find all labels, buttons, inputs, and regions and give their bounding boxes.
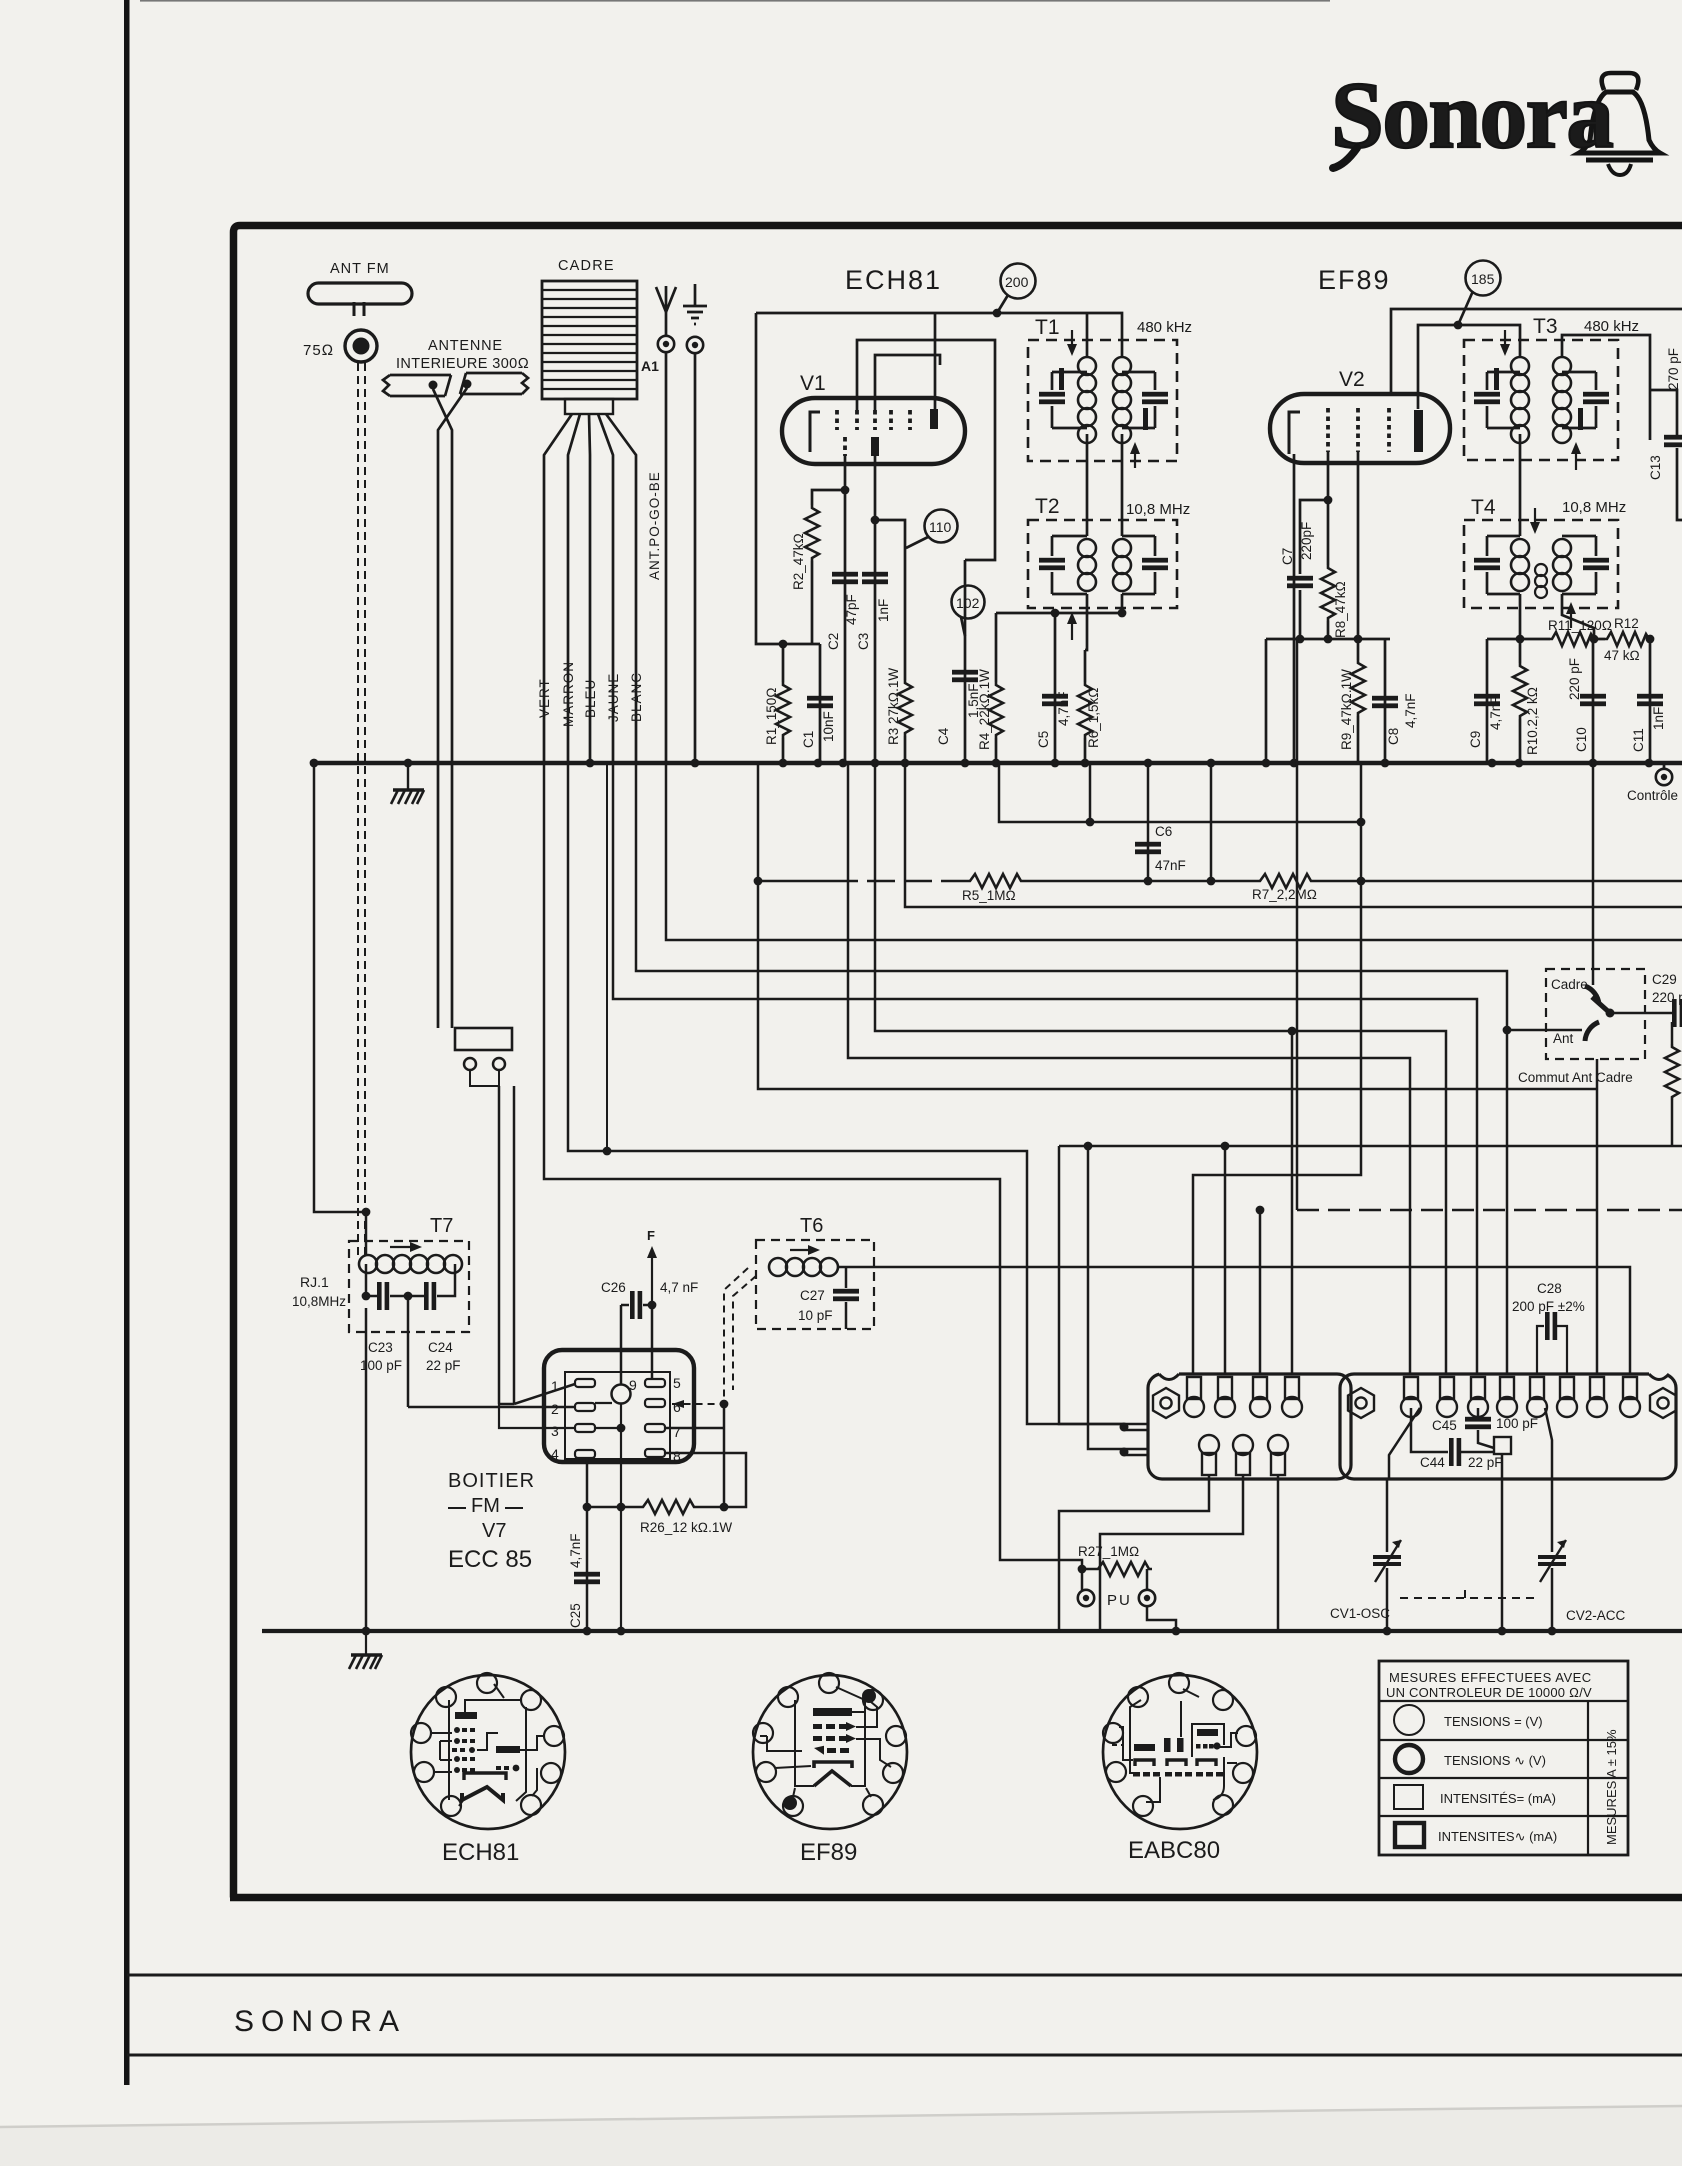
T3 tuning arrow secondary: [1575, 446, 1577, 470]
ground stub & symbol: [365, 1631, 367, 1654]
transformer T6 box: [756, 1240, 874, 1329]
resistor R12 47k: [1605, 632, 1649, 646]
svg-text:T7: T7: [430, 1215, 453, 1237]
svg-text:1nF: 1nF: [876, 599, 891, 622]
svg-text:VERT: VERT: [537, 678, 552, 718]
heater ECH81: [464, 1773, 506, 1780]
svg-text:4,7nF: 4,7nF: [568, 1533, 583, 1568]
svg-text:Sonora: Sonora: [1331, 62, 1613, 168]
socket centre pin 9: [612, 1385, 631, 1404]
svg-text:R7_2,2MΩ: R7_2,2MΩ: [1252, 887, 1317, 902]
transformer T7 box: [349, 1241, 469, 1332]
wire JAUNE branch: [613, 763, 1477, 1374]
svg-text:SONORA: SONORA: [234, 2005, 406, 2038]
main schematic frame: [234, 226, 1682, 1898]
socket circle ECH81: [411, 1675, 565, 1829]
wire AGC left drop: [758, 763, 1597, 1089]
svg-text:CV2-ACC: CV2-ACC: [1566, 1608, 1626, 1623]
svg-text:200 pF ±2%: 200 pF ±2%: [1512, 1299, 1585, 1314]
T4 secondary bottom lead: [1562, 594, 1594, 639]
svg-text:C6: C6: [1155, 824, 1172, 839]
left margin rule: [124, 0, 130, 2085]
internal wiring EABC80: [1112, 1689, 1238, 1802]
capacitor C4 1,5nF: [964, 560, 967, 763]
svg-text:C26: C26: [601, 1280, 626, 1295]
svg-text:75Ω: 75Ω: [303, 342, 334, 359]
spare bus drop wire: [606, 763, 608, 1151]
node line for R1 C1: [779, 640, 788, 649]
switch contacts: [1585, 986, 1599, 1004]
svg-text:C45: C45: [1432, 1418, 1457, 1433]
svg-text:C9: C9: [1468, 731, 1483, 748]
pointer wire from 185: [1458, 291, 1473, 325]
V2 cathode: [1289, 412, 1300, 454]
pin6 junction down to R26: [723, 1404, 726, 1507]
T1 tuning arrow primary: [1071, 330, 1073, 352]
svg-text:MESURES EFFECTUEES AVEC: MESURES EFFECTUEES AVEC: [1389, 1670, 1592, 1685]
svg-text:RJ.1: RJ.1: [300, 1274, 329, 1290]
capacitor C10 220pF: [1592, 639, 1595, 763]
svg-text:ANT.PO-GO-BE: ANT.PO-GO-BE: [647, 471, 662, 580]
bus ground symbol: [391, 790, 424, 804]
V1 lower anode bar: [871, 437, 879, 456]
socket pins EABC80: [1103, 1673, 1256, 1816]
pin2 to pin9 link: [595, 1402, 612, 1404]
node rail y613: [996, 612, 1122, 615]
grid dash rows ECH81: [452, 1727, 519, 1773]
svg-text:270 pF: 270 pF: [1666, 348, 1681, 390]
svg-text:480 kHz: 480 kHz: [1584, 318, 1639, 335]
pointer wire from 200: [997, 295, 1008, 313]
svg-text:TENSIONS ∿ (V): TENSIONS ∿ (V): [1444, 1753, 1546, 1768]
svg-text:A1: A1: [641, 358, 659, 374]
svg-text:R9_47kΩ.1W: R9_47kΩ.1W: [1339, 669, 1354, 750]
V1 anode bar: [930, 409, 938, 429]
bus dots: [362, 1627, 371, 1636]
svg-text:BOITIER: BOITIER: [448, 1470, 535, 1492]
chassis bus line: [310, 761, 1682, 766]
measure circle 200: [1001, 264, 1036, 299]
svg-text:4,7nF: 4,7nF: [1403, 693, 1418, 728]
svg-text:22 pF: 22 pF: [1468, 1455, 1503, 1470]
wire down to key 1597: [1596, 1059, 1599, 1374]
capacitor C8 4,7nF: [1384, 639, 1387, 763]
wire to key line y1058: [848, 763, 1410, 1374]
wire bus-left drop to T7: [314, 763, 366, 1212]
svg-text:100 pF: 100 pF: [1496, 1416, 1538, 1431]
svg-text:F: F: [647, 1228, 655, 1243]
Sonora logo bell: [1579, 73, 1660, 175]
svg-text:C13: C13: [1648, 455, 1663, 480]
edge resistor below C29: [1671, 1022, 1674, 1044]
capacitor C11 1nF: [1649, 639, 1652, 763]
V1 grid pins (upper row): [837, 410, 910, 430]
socket labels: [448, 1470, 535, 1573]
anode bars ECH81: [455, 1712, 477, 1719]
svg-text:C2: C2: [826, 633, 841, 650]
trimmer pad square: [1494, 1437, 1511, 1454]
T7 resonant caps C23 C24: [366, 1264, 455, 1296]
wire BLANC branch: [636, 763, 1507, 1374]
CV gang dashed link: [1400, 1597, 1535, 1599]
svg-text:C29: C29: [1652, 972, 1677, 987]
socket pin2 wire from T7: [408, 1406, 575, 1409]
svg-text:PU: PU: [1107, 1592, 1132, 1609]
capacitor C7 220pF: [1287, 576, 1313, 588]
bus junction dots: [310, 759, 319, 768]
grid1 lead with C7 branch: [1327, 452, 1330, 565]
svg-text:C5: C5: [1036, 731, 1051, 748]
V1 anode supply rail: [756, 313, 1122, 356]
svg-text:MESURES A ± 15%: MESURES A ± 15%: [1604, 1729, 1619, 1845]
aux ground wire to bus: [694, 353, 697, 763]
svg-text:R3 27kΩ.1W: R3 27kΩ.1W: [886, 668, 901, 745]
75 ohm coax connector: [345, 330, 377, 362]
T3 secondary circuit: [1562, 372, 1596, 428]
grid dash rows EF89 with arrows: [813, 1722, 856, 1755]
svg-text:BLEU: BLEU: [583, 679, 598, 718]
svg-text:T4: T4: [1471, 496, 1496, 519]
svg-text:R5_1MΩ: R5_1MΩ: [962, 888, 1016, 903]
row2 thick circle: [1395, 1745, 1423, 1773]
tube V1 envelope: [782, 398, 965, 464]
svg-text:5: 5: [673, 1375, 681, 1391]
T3-T4 link: [1519, 434, 1522, 536]
T2 secondary bottom lead: [1121, 594, 1124, 613]
resistor R9 47k 1W (g3 lead): [1357, 452, 1360, 660]
capacitor C13 270pF at edge: [1650, 390, 1682, 520]
ribbon down-leads (crossing): [433, 389, 452, 1028]
socket pin numbers: [551, 1375, 681, 1464]
row1 thin circle: [1394, 1705, 1424, 1735]
svg-text:Commut Ant Cadre: Commut Ant Cadre: [1518, 1070, 1633, 1085]
pin9/pin3 junction lead: [620, 1404, 622, 1631]
svg-text:2: 2: [551, 1401, 559, 1417]
cadre feed drop x1593: [1592, 763, 1595, 985]
vertical bus-to-AGC x1211: [1210, 763, 1213, 881]
measure circle 102: [952, 586, 985, 619]
V1 cathode: [810, 412, 820, 452]
antenna pair into socket pin 1: [514, 1384, 575, 1404]
transformer T2 box: [1028, 520, 1177, 608]
svg-text:TENSIONS = (V): TENSIONS = (V): [1444, 1714, 1543, 1729]
T7 coil: [359, 1255, 462, 1273]
AVC dashed rail y1210: [1297, 1209, 1682, 1212]
T4 secondary circuit: [1562, 536, 1596, 594]
svg-text:220 pF: 220 pF: [1567, 658, 1582, 700]
T7 arrow: [390, 1246, 418, 1248]
aux ground connector: [687, 337, 703, 353]
svg-text:4,7 nF: 4,7 nF: [660, 1280, 698, 1295]
capacitor C27 10pF: [845, 1267, 848, 1329]
T2 primary circuit: [1052, 536, 1087, 594]
CV1 oscillator variable capacitor: [1386, 1479, 1389, 1631]
pin4 lead down with C25: [586, 1458, 589, 1631]
capacitor C29 220pF: [1672, 999, 1682, 1027]
cadre wire fan: [544, 414, 572, 763]
V2 screen rail: [1391, 309, 1682, 394]
svg-text:C8: C8: [1386, 728, 1401, 745]
internal wiring EF89: [760, 1687, 891, 1797]
svg-text:T6: T6: [800, 1215, 823, 1237]
svg-text:R27_1MΩ: R27_1MΩ: [1078, 1544, 1139, 1559]
pin7 wire: [665, 1427, 724, 1430]
svg-text:3: 3: [551, 1423, 559, 1439]
V1 grid rail 2: [857, 340, 995, 560]
socket pins EF89: [753, 1673, 906, 1816]
svg-text:T3: T3: [1533, 315, 1558, 338]
svg-text:102: 102: [956, 595, 980, 611]
diagonal inside right block CV1: [1389, 1408, 1420, 1479]
branch to key4: [1291, 1031, 1294, 1374]
socket circle EF89: [753, 1675, 907, 1829]
capacitor C1 10nF: [819, 644, 822, 763]
svg-text:CV1-OSC: CV1-OSC: [1330, 1606, 1390, 1621]
svg-text:FM: FM: [471, 1495, 500, 1517]
node rail y639 right: [1487, 638, 1650, 641]
T4 arrow up secondary: [1570, 606, 1572, 628]
vertical x1361 bus to block key1: [1193, 763, 1361, 1374]
resistor R7 2,2M: [1257, 874, 1314, 888]
left block side pins: [1124, 1424, 1148, 1455]
wire MARRON branch: [568, 763, 1124, 1424]
capacitor C9 4,7nF: [1486, 639, 1489, 763]
FM dipole antenna: [308, 283, 412, 304]
svg-text:V7: V7: [482, 1520, 506, 1542]
V2 cathode lead: [1293, 454, 1296, 763]
svg-text:INTERIEURE 300Ω: INTERIEURE 300Ω: [396, 356, 529, 372]
keyboard chassis left section: [1148, 1374, 1351, 1479]
svg-text:R1_150Ω: R1_150Ω: [764, 687, 779, 745]
capacitor C44 22pF: [1411, 1408, 1494, 1452]
resistor R3 27k 1W: [875, 520, 905, 680]
resistor R5 1M: [967, 874, 1024, 888]
T2 primary bottom lead to R6: [1085, 594, 1087, 650]
svg-text:R6_1,5kΩ: R6_1,5kΩ: [1086, 687, 1101, 748]
T1 primary circuit: [1052, 372, 1087, 428]
svg-text:ANT FM: ANT FM: [330, 261, 390, 277]
svg-text:200: 200: [1005, 274, 1029, 290]
diode bars EABC80: [1134, 1744, 1155, 1751]
svg-text:JAUNE: JAUNE: [606, 673, 621, 722]
C26 lead into pin9: [620, 1305, 623, 1384]
svg-text:C28: C28: [1537, 1281, 1562, 1296]
T1-T2 coupling wires: [1087, 434, 1122, 536]
T4 primary circuit: [1487, 536, 1520, 594]
svg-text:ANTENNE: ANTENNE: [428, 338, 503, 354]
svg-text:Contrôle: Contrôle: [1627, 788, 1678, 803]
controle terminal: [1656, 769, 1672, 785]
coax dashed down-lead: [357, 363, 359, 1256]
socket pins ECH81: [411, 1673, 564, 1816]
svg-text:R26_12 kΩ.1W: R26_12 kΩ.1W: [640, 1520, 732, 1535]
svg-text:BLANC: BLANC: [629, 672, 644, 722]
T3 secondary top lead: [1562, 335, 1650, 440]
resistor R8 47k: [1321, 565, 1335, 621]
svg-text:Ant: Ant: [1553, 1031, 1574, 1046]
svg-text:MARRON: MARRON: [561, 661, 576, 727]
svg-text:ECH81: ECH81: [442, 1839, 519, 1866]
svg-text:R4_22kΩ.1W: R4_22kΩ.1W: [977, 669, 992, 750]
svg-text:C27: C27: [800, 1288, 825, 1303]
PU terminals: [1078, 1590, 1094, 1606]
T7 output to ground bus: [365, 1308, 368, 1631]
socket pin3 wire from antenna pair: [499, 1404, 575, 1428]
svg-text:C11: C11: [1631, 728, 1646, 752]
resistor R10 2,2k: [1519, 639, 1522, 663]
svg-text:10,8MHz: 10,8MHz: [292, 1294, 346, 1309]
svg-text:UN CONTROLEUR DE 10000 Ω/V: UN CONTROLEUR DE 10000 Ω/V: [1386, 1685, 1592, 1700]
capacitor C2 47pF wire: [844, 490, 847, 763]
svg-text:480 kHz: 480 kHz: [1137, 319, 1192, 336]
svg-text:7: 7: [673, 1424, 681, 1440]
svg-text:R8_47kΩ: R8_47kΩ: [1333, 581, 1348, 638]
page bottom edge shadow: [0, 2106, 1682, 2166]
V2 anode bar: [1414, 410, 1423, 452]
top scan hairline: [140, 0, 1330, 2]
svg-text:ECC 85: ECC 85: [448, 1546, 532, 1573]
svg-text:C7: C7: [1280, 548, 1295, 565]
CV2 variable capacitor: [1501, 1454, 1504, 1631]
cadre frame-antenna block: [542, 281, 637, 399]
V1 anode lead: [934, 313, 937, 410]
A1 connector: [658, 336, 674, 352]
T4 coupling coil: [1535, 564, 1547, 598]
resistor R2 47k: [805, 505, 819, 561]
wire to key line y1031: [875, 763, 1446, 1374]
R2 node wire: [812, 456, 845, 505]
wire long y907: [905, 763, 1682, 907]
wire VERT branch: [544, 763, 1082, 1590]
svg-text:R12: R12: [1614, 616, 1639, 631]
A1 wire to bus: [665, 312, 668, 763]
svg-text:1nF: 1nF: [1651, 707, 1666, 730]
hex nuts: [1153, 1388, 1179, 1418]
grid node rail y639: [1266, 638, 1390, 641]
Sonora logo text: [1331, 62, 1613, 168]
svg-text:C3: C3: [856, 633, 871, 650]
switch blade: [1592, 997, 1610, 1013]
measure circle 185: [1466, 261, 1501, 296]
row4 thick square: [1395, 1823, 1424, 1847]
aux ground symbol: [683, 284, 707, 324]
svg-text:4,7nF: 4,7nF: [1488, 695, 1503, 730]
svg-text:C10: C10: [1574, 727, 1589, 752]
svg-text:V1: V1: [800, 372, 826, 395]
socket circle EABC80: [1103, 1675, 1257, 1829]
svg-text:C23: C23: [368, 1340, 393, 1355]
svg-text:R10.2,2 kΩ: R10.2,2 kΩ: [1525, 687, 1540, 755]
wire y1146 with drops: [1059, 1145, 1682, 1148]
resistor R6 1,5k: [1084, 650, 1087, 682]
svg-text:INTENSITES∿ (mA): INTENSITES∿ (mA): [1438, 1829, 1557, 1844]
transformer T1 box: [1028, 340, 1177, 461]
top keys left block: [1184, 1377, 1204, 1417]
V2 grid pins: [1328, 408, 1389, 452]
svg-text:8: 8: [673, 1448, 681, 1464]
svg-text:47pF: 47pF: [844, 594, 859, 625]
legend dividers: [1379, 1701, 1628, 1855]
svg-text:4: 4: [551, 1446, 559, 1462]
svg-text:110: 110: [929, 519, 952, 535]
svg-text:47nF: 47nF: [1155, 858, 1186, 873]
A1 aerial symbol: [656, 286, 676, 312]
commut box: [1546, 969, 1645, 1059]
FM unit socket outline: [544, 1350, 694, 1462]
lower key wires to ground bus: [1059, 1475, 1209, 1631]
dash rows EABC80: [1196, 1742, 1221, 1749]
svg-text:C1: C1: [801, 731, 816, 748]
svg-text:4,7nF: 4,7nF: [1056, 691, 1071, 726]
diode plates EABC80: [1135, 1760, 1216, 1766]
T1 tuning arrow secondary: [1134, 446, 1136, 468]
ribbon antenna pair into connector block: [455, 1028, 512, 1050]
cathode hat EF89: [814, 1762, 852, 1768]
cadre wire colour labels: [537, 471, 662, 727]
V1 left loop wire: [756, 313, 820, 644]
svg-text:Cadre: Cadre: [1551, 977, 1588, 992]
svg-text:V2: V2: [1339, 368, 1365, 391]
svg-text:T2: T2: [1035, 495, 1060, 518]
capacitor C6 47nF: [1147, 763, 1150, 881]
svg-text:EABC80: EABC80: [1128, 1837, 1220, 1864]
svg-text:T1: T1: [1035, 316, 1060, 339]
F lead into pin5: [651, 1305, 654, 1379]
screen bar EF89: [813, 1708, 852, 1716]
T4 primary bottom lead: [1519, 594, 1522, 639]
V1 grid rail 3: [875, 355, 940, 410]
ground drop of grid rail: [1265, 639, 1268, 763]
chassis mounting notches: [1159, 1372, 1179, 1376]
svg-text:C44: C44: [1420, 1455, 1445, 1470]
resistor R1 150 ohm: [782, 644, 785, 682]
capacitor C3 1nF wire: [874, 456, 877, 763]
capacitor C26 4,7nF: [621, 1304, 652, 1307]
measure circle 110: [925, 510, 958, 543]
screen decoupling rail y822: [999, 763, 1361, 822]
T3 primary circuit: [1487, 372, 1520, 428]
resistor R26 12k 1W: [587, 1506, 640, 1509]
ground bus line: [262, 1629, 1682, 1633]
T6 coil: [769, 1258, 838, 1276]
internal wiring ECH81: [432, 1684, 544, 1806]
svg-text:10,8 MHz: 10,8 MHz: [1126, 501, 1190, 518]
bottom keys left block: [1199, 1435, 1219, 1475]
V1 lower grid pin: [843, 437, 847, 456]
T1 secondary circuit: [1122, 372, 1155, 428]
T6 arrow: [790, 1249, 816, 1251]
transformer T3 box: [1464, 340, 1618, 460]
svg-text:1: 1: [551, 1378, 559, 1394]
svg-text:10nF: 10nF: [821, 711, 836, 742]
socket inner frame: [565, 1372, 670, 1459]
capacitor C5 4,7nF: [1054, 613, 1057, 763]
svg-text:220pF: 220pF: [1299, 522, 1314, 560]
keyboard chassis right section: [1340, 1374, 1676, 1479]
bottom title block rules: [127, 1974, 1682, 1977]
legend title: [1386, 1670, 1592, 1700]
svg-text:C25: C25: [568, 1603, 583, 1628]
svg-text:R2_47kΩ: R2_47kΩ: [791, 533, 806, 590]
bus ground stub: [407, 763, 409, 789]
T6 output wire to C28: [837, 1267, 1630, 1374]
T2 arrow up into primary: [1071, 616, 1073, 640]
svg-text:R11_120Ω: R11_120Ω: [1548, 618, 1612, 633]
resistor R4 22k 1W: [995, 613, 998, 682]
wire A1 branch: [666, 763, 1682, 940]
tube V2 envelope: [1270, 394, 1450, 463]
socket pins left column: [575, 1379, 665, 1458]
